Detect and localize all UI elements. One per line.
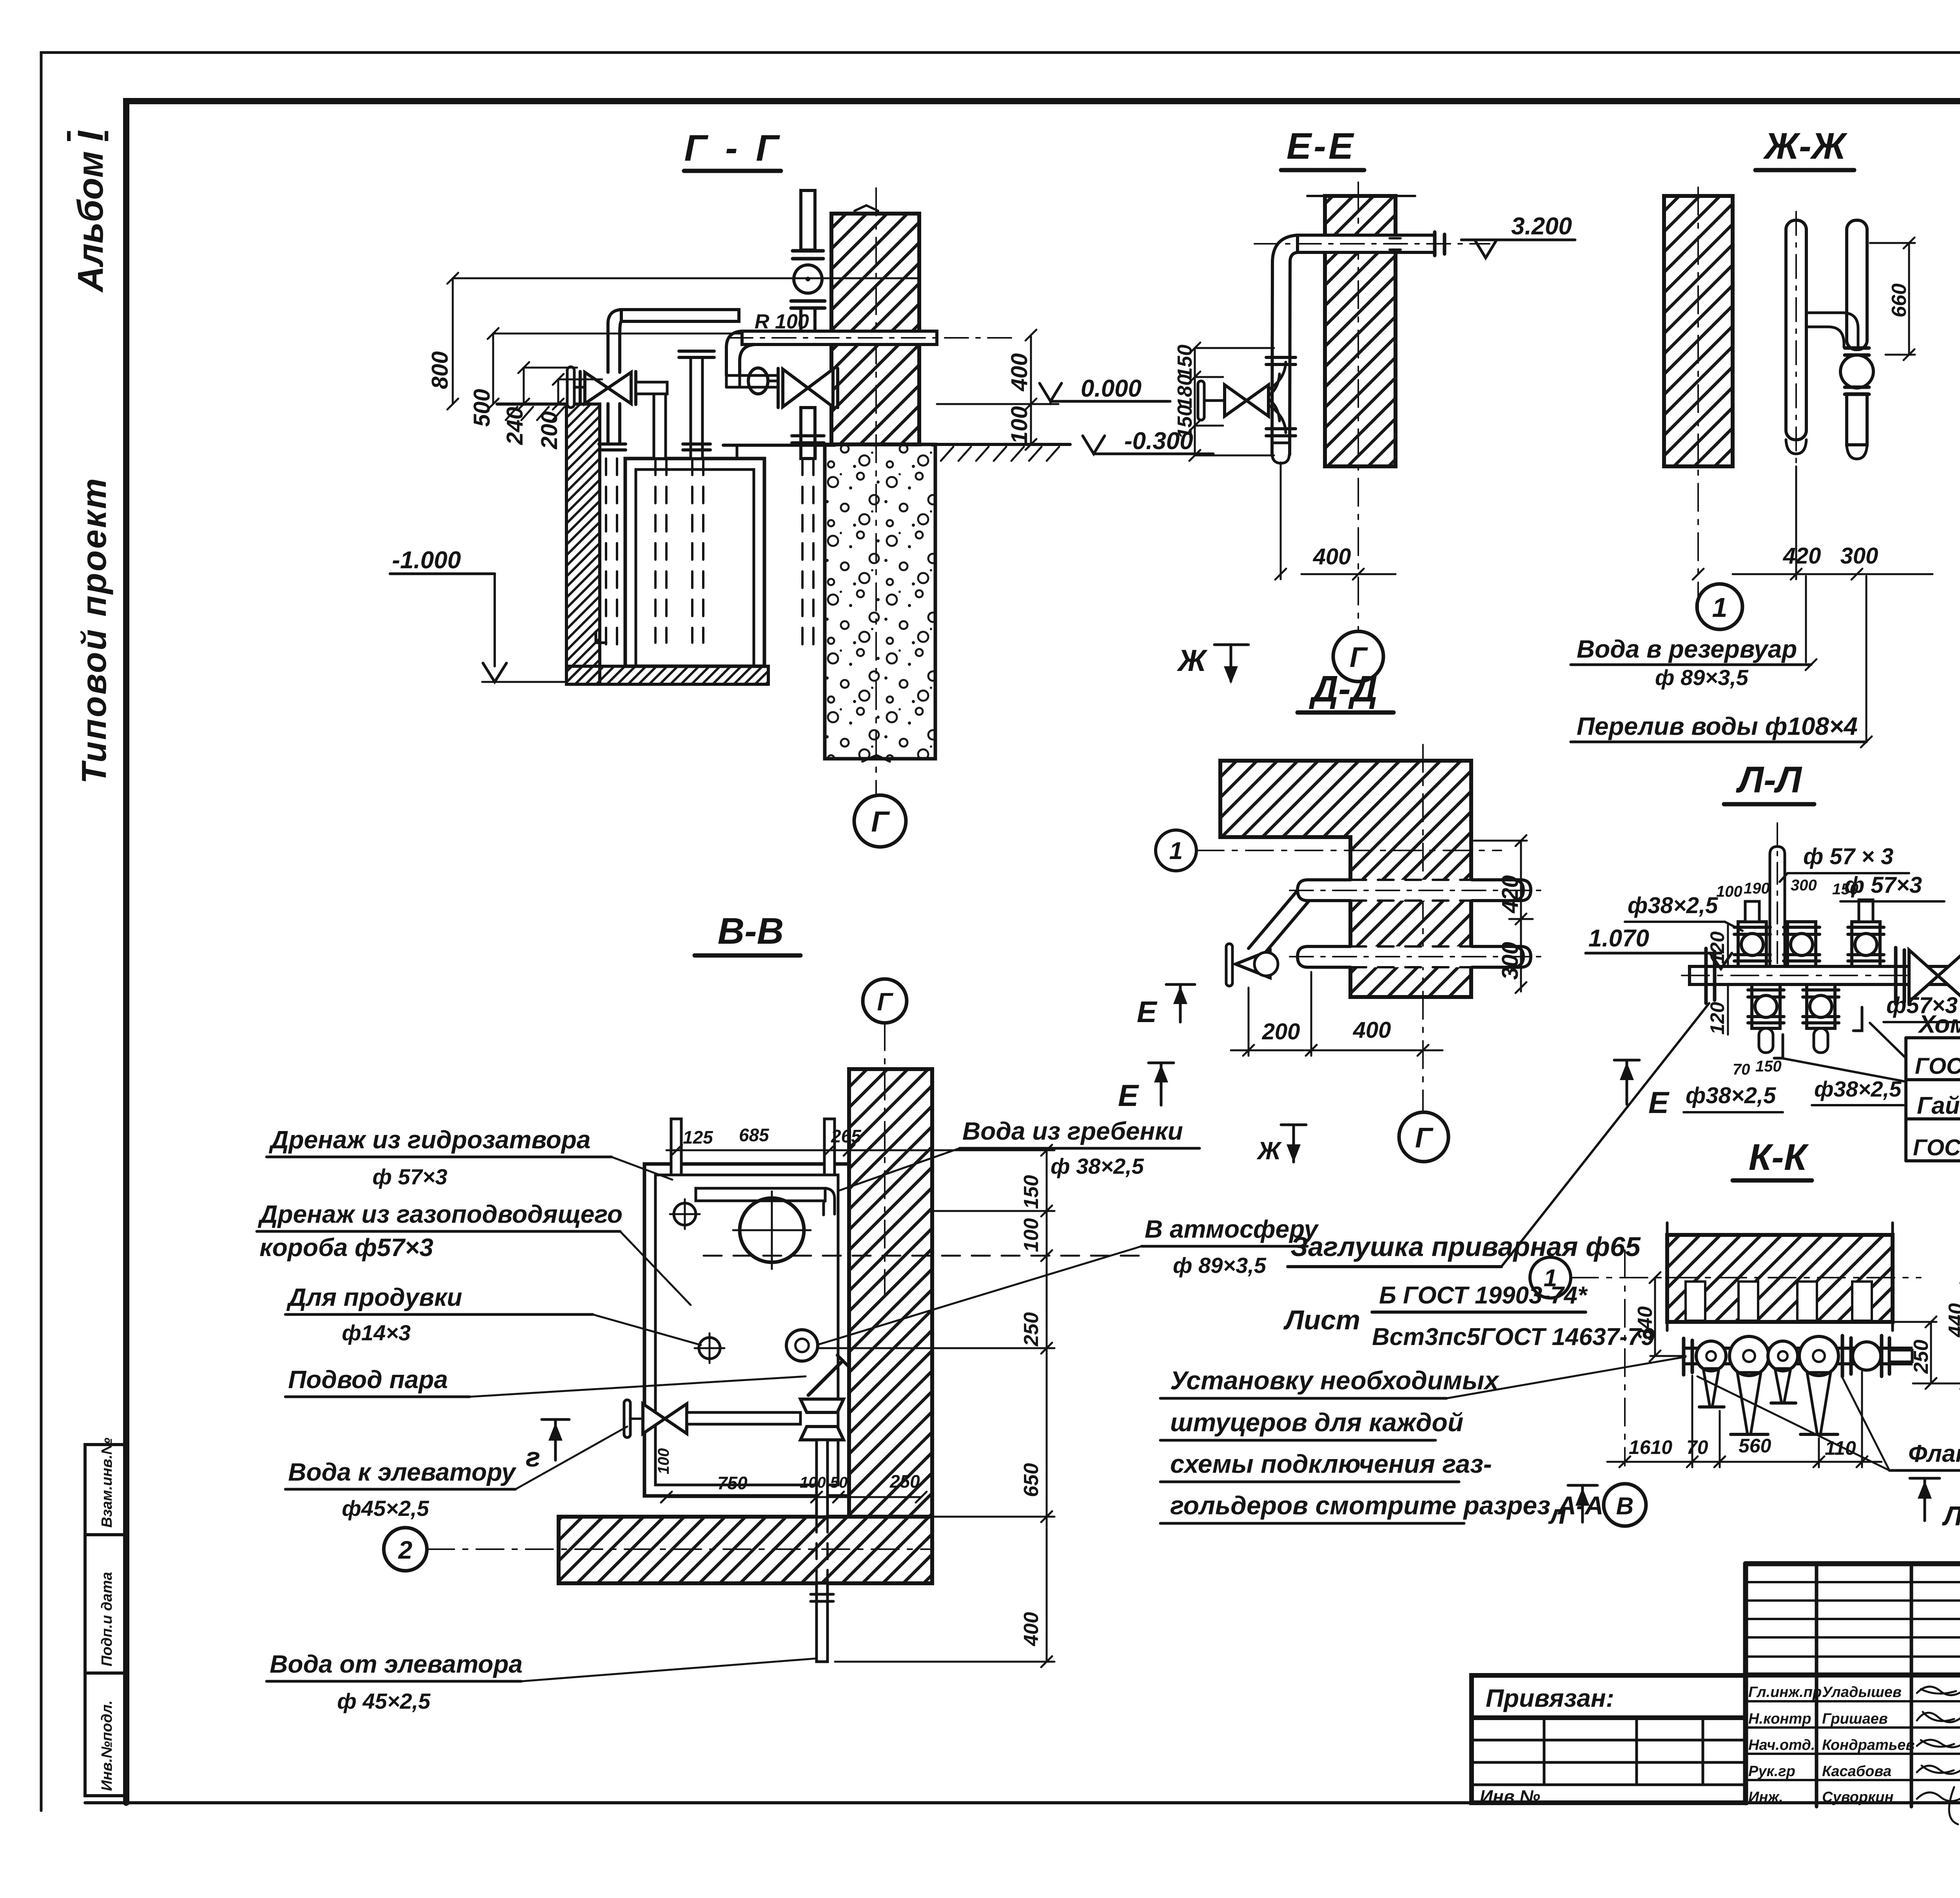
svg-text:гольдеров смотрите разрез А-А: гольдеров смотрите разрез А-А bbox=[1170, 1491, 1604, 1520]
svg-text:150: 150 bbox=[1832, 881, 1858, 898]
svg-text:R 100: R 100 bbox=[755, 310, 809, 333]
svg-text:1: 1 bbox=[1169, 838, 1183, 865]
svg-text:400: 400 bbox=[1313, 544, 1351, 569]
wall centerline bbox=[1697, 187, 1699, 616]
wall vertical hatched bbox=[849, 1069, 932, 1517]
svg-text:короба ф57×3: короба ф57×3 bbox=[260, 1233, 434, 1262]
gate valve right bbox=[1894, 948, 1898, 1004]
svg-text:240: 240 bbox=[502, 407, 528, 445]
dim 250 440 right bbox=[1894, 1272, 1960, 1389]
duct box outer bbox=[644, 1164, 849, 1496]
axis circle 1 bbox=[1156, 830, 1196, 871]
vertical pipe bottom cap bbox=[1272, 443, 1290, 463]
dim 500 bbox=[492, 334, 494, 404]
svg-text:Фланец 1-50-10 ГОСТ 12820-80: Фланец 1-50-10 ГОСТ 12820-80 bbox=[1908, 1440, 1960, 1467]
svg-text:ф 57 × 3: ф 57 × 3 bbox=[1803, 844, 1893, 869]
svg-text:150: 150 bbox=[1174, 405, 1196, 439]
svg-text:Вода в резервуар: Вода в резервуар bbox=[1577, 635, 1797, 663]
svg-text:150: 150 bbox=[1174, 344, 1196, 379]
slab hatched bbox=[1667, 1235, 1893, 1322]
lower pipe bbox=[1298, 946, 1531, 967]
svg-text:100: 100 bbox=[1020, 1218, 1043, 1252]
node circle Г bbox=[854, 795, 906, 847]
svg-text:Л-Л: Л-Л bbox=[1736, 759, 1802, 801]
big gas pipe circle bbox=[740, 1198, 804, 1262]
bottom valve handwheel bbox=[624, 1400, 630, 1438]
right ball valve bbox=[1841, 1336, 1844, 1376]
pit left wall bbox=[566, 404, 600, 684]
wall vertical centerline bbox=[1422, 745, 1424, 1112]
left flange bbox=[1682, 1338, 1686, 1375]
svg-text:В: В bbox=[1616, 1493, 1634, 1520]
svg-text:Г: Г bbox=[1415, 1122, 1434, 1154]
pit bottom slab bbox=[566, 666, 768, 684]
svg-text:265: 265 bbox=[831, 1126, 862, 1146]
svg-text:Л: Л bbox=[1942, 1501, 1960, 1531]
svg-text:560: 560 bbox=[1739, 1435, 1771, 1457]
wall bottom band hatched bbox=[559, 1517, 932, 1583]
svg-text:100 50: 100 50 bbox=[800, 1474, 848, 1491]
duct box inner bbox=[655, 1175, 838, 1485]
svg-text:420: 420 bbox=[1497, 875, 1523, 914]
valve unit B above bbox=[1784, 922, 1820, 966]
wall L-shape hatched bbox=[1220, 761, 1471, 997]
svg-text:440: 440 bbox=[1945, 1303, 1960, 1338]
svg-text:ф 57×3: ф 57×3 bbox=[372, 1164, 447, 1189]
svg-text:ГОСТ 24137-80 Ст.3: ГОСТ 24137-80 Ст.3 bbox=[1915, 1053, 1960, 1079]
bracket marks bbox=[1774, 1007, 1862, 1058]
svg-text:ф38×2,5: ф38×2,5 bbox=[1628, 893, 1718, 918]
svg-text:200: 200 bbox=[1262, 1019, 1300, 1044]
axis circle 1 bbox=[1530, 1257, 1571, 1298]
svg-text:ГОСТ 5915-70* Сталь10: ГОСТ 5915-70* Сталь10 bbox=[1913, 1135, 1960, 1160]
steam valve with diagonal handle bbox=[808, 1361, 843, 1395]
svg-text:Заглушка приварная ф65: Заглушка приварная ф65 bbox=[1290, 1231, 1641, 1262]
svg-text:Подп.и дата: Подп.и дата bbox=[99, 1572, 115, 1666]
svg-text:Хомут 60: Хомут 60 bbox=[1918, 1010, 1960, 1038]
svg-text:70: 70 bbox=[1686, 1436, 1708, 1458]
riser pipe tall bbox=[1770, 847, 1785, 966]
top extension line bbox=[1307, 195, 1415, 197]
horizontal pipe through wall bbox=[1298, 235, 1435, 252]
left valve handwheel edge-on bbox=[567, 367, 574, 408]
drop pipe at elbow bbox=[654, 394, 666, 459]
svg-text:Вст3пс5ГОСТ 14637-79: Вст3пс5ГОСТ 14637-79 bbox=[1372, 1323, 1655, 1351]
svg-text:Дренаж из газоподводящего: Дренаж из газоподводящего bbox=[258, 1200, 622, 1228]
view marker Л right bbox=[1910, 1477, 1940, 1480]
svg-text:Нач.отд.: Нач.отд. bbox=[1748, 1737, 1815, 1753]
svg-text:1: 1 bbox=[1544, 1265, 1557, 1292]
main pipe below valve bbox=[801, 408, 815, 459]
svg-text:100: 100 bbox=[1716, 883, 1742, 900]
svg-text:750: 750 bbox=[717, 1473, 748, 1493]
pipe end cap bbox=[1433, 232, 1437, 256]
svg-text:Н.контр: Н.контр bbox=[1748, 1711, 1811, 1727]
elbow to vertical pipe bbox=[1272, 235, 1298, 455]
svg-text:Уладышев: Уладышев bbox=[1822, 1684, 1902, 1700]
ground line right bbox=[935, 443, 1070, 446]
svg-text:660: 660 bbox=[1888, 283, 1911, 317]
privyazan block bbox=[1472, 1675, 1746, 1803]
bottom dim 400 bbox=[1275, 462, 1396, 580]
node circle Г bbox=[1333, 631, 1383, 682]
svg-text:ф 38×2,5: ф 38×2,5 bbox=[1051, 1154, 1144, 1178]
drain circle bbox=[674, 1203, 696, 1225]
svg-text:Вода к элеватору: Вода к элеватору bbox=[288, 1458, 517, 1486]
svg-text:300: 300 bbox=[1840, 543, 1878, 569]
svg-text:Е-Е: Е-Е bbox=[1287, 125, 1356, 167]
valve circles bbox=[1696, 1341, 1726, 1371]
svg-text:Альбом I: Альбом I bbox=[71, 130, 111, 293]
svg-text:100: 100 bbox=[1007, 406, 1032, 444]
left stamp column bbox=[85, 1438, 126, 1796]
leaders to khomut table bbox=[1782, 1023, 1906, 1082]
wall hatched bbox=[1664, 196, 1733, 466]
dim 240 bbox=[523, 368, 525, 404]
bottom dims bbox=[1607, 1372, 1882, 1467]
valve branch: handwheel edge-on bbox=[1198, 381, 1204, 420]
svg-text:Взам.инв.№: Взам.инв.№ bbox=[99, 1438, 115, 1528]
khomut table bbox=[1906, 1038, 1960, 1161]
bottom dims 420 300 bbox=[1693, 466, 1933, 580]
dim 100 right bbox=[1030, 404, 1032, 444]
atmosphere pipe circle bbox=[786, 1330, 818, 1361]
svg-text:Суворкин: Суворкин bbox=[1822, 1789, 1893, 1806]
node circle Г bbox=[1399, 1112, 1448, 1162]
wall hatched bbox=[831, 214, 919, 444]
valve handwheel edge-on bbox=[1226, 944, 1232, 986]
svg-text:300: 300 bbox=[1497, 942, 1523, 980]
svg-text:Е: Е bbox=[1118, 1078, 1139, 1113]
pipe slots in slab bbox=[1686, 1282, 1872, 1321]
svg-text:Ж: Ж bbox=[1176, 643, 1208, 678]
svg-text:Ж-Ж: Ж-Ж bbox=[1763, 125, 1848, 167]
valve on right pipe bbox=[1845, 346, 1869, 350]
dim 200 bbox=[557, 379, 559, 404]
valve unit C above bbox=[1848, 900, 1884, 966]
svg-text:190: 190 bbox=[1744, 880, 1770, 897]
handwheel bbox=[794, 265, 822, 293]
horizontal pipe R100 through wall bbox=[742, 331, 937, 344]
svg-text:Е: Е bbox=[1648, 1085, 1670, 1120]
pipe from left valve to elbow bbox=[636, 382, 667, 394]
hose curves to pipe bbox=[1269, 362, 1286, 396]
svg-text:420: 420 bbox=[1783, 543, 1821, 569]
svg-text:650: 650 bbox=[1020, 1463, 1043, 1497]
svg-text:150: 150 bbox=[1755, 1058, 1782, 1075]
upper horizontal pipe bbox=[621, 310, 739, 321]
svg-text:340: 340 bbox=[1634, 1306, 1657, 1340]
bottom dims 200 400 bbox=[1231, 972, 1443, 1056]
middle pipe with tee bbox=[691, 357, 702, 459]
svg-text:200: 200 bbox=[537, 411, 562, 450]
view marker Ж bottom bbox=[1281, 1124, 1306, 1126]
svg-text:ф38×2,5: ф38×2,5 bbox=[1686, 1083, 1776, 1108]
node circle 2 bbox=[384, 1528, 427, 1571]
svg-text:120: 120 bbox=[1706, 1002, 1728, 1035]
svg-text:0.000: 0.000 bbox=[1081, 375, 1142, 402]
wall hatched bbox=[1325, 196, 1396, 466]
svg-text:Подвод пара: Подвод пара bbox=[288, 1365, 448, 1394]
valve unit A above bbox=[1734, 901, 1770, 966]
svg-text:3.200: 3.200 bbox=[1511, 213, 1572, 240]
dim 660 bbox=[1870, 237, 1915, 360]
svg-text:В-В: В-В bbox=[718, 910, 784, 952]
svg-text:800: 800 bbox=[427, 351, 453, 389]
svg-text:250: 250 bbox=[889, 1471, 920, 1492]
svg-text:ф 89×3,5: ф 89×3,5 bbox=[1173, 1253, 1267, 1278]
down pipe from valve bbox=[817, 1440, 828, 1517]
svg-text:1610: 1610 bbox=[1629, 1436, 1672, 1458]
tank inner bbox=[636, 470, 754, 666]
svg-text:ф38×2,5: ф38×2,5 bbox=[1814, 1077, 1902, 1101]
wall break marks bbox=[855, 205, 878, 211]
flange pair bbox=[793, 249, 823, 253]
svg-text:Е: Е bbox=[1137, 995, 1158, 1029]
svg-text:400: 400 bbox=[1020, 1612, 1043, 1646]
svg-text:250: 250 bbox=[1910, 1340, 1933, 1374]
svg-text:180: 180 bbox=[1174, 374, 1196, 408]
svg-text:Инж.: Инж. bbox=[1748, 1789, 1783, 1806]
valve bowtie bbox=[1225, 385, 1269, 416]
svg-text:Типовой проект: Типовой проект bbox=[74, 477, 113, 784]
svg-text:500: 500 bbox=[469, 389, 495, 427]
ground line left bbox=[497, 402, 566, 406]
node circle 1 bbox=[1697, 584, 1742, 629]
personnel rows bbox=[1748, 1684, 1915, 1806]
foundation concrete bbox=[825, 444, 935, 759]
svg-text:685: 685 bbox=[739, 1125, 769, 1145]
right dim chain bbox=[819, 1145, 1054, 1667]
svg-text:Установку необходимых: Установку необходимых bbox=[1170, 1366, 1499, 1395]
svg-text:120: 120 bbox=[1706, 931, 1728, 964]
svg-text:400: 400 bbox=[1007, 353, 1032, 392]
cones below bbox=[1703, 1369, 1719, 1407]
dim 800 bbox=[427, 273, 1058, 450]
bottom valve bowtie bbox=[643, 1404, 687, 1434]
svg-text:Инв.№подл.: Инв.№подл. bbox=[99, 1700, 115, 1791]
svg-text:В атмосферу: В атмосферу bbox=[1145, 1215, 1319, 1243]
svg-text:100: 100 bbox=[655, 1448, 672, 1474]
TITLE BLOCK bbox=[1472, 1564, 1960, 1824]
dim 120 x2 bbox=[1706, 925, 1728, 1035]
diagonal pipe to valve bbox=[1249, 890, 1309, 952]
dashed pipes in tank bbox=[606, 459, 813, 647]
svg-text:ф 45×2,5: ф 45×2,5 bbox=[337, 1689, 431, 1713]
svg-text:Касабова: Касабова bbox=[1822, 1763, 1891, 1780]
dims above box bbox=[666, 1125, 890, 1156]
svg-text:Лист: Лист bbox=[1283, 1305, 1360, 1335]
svg-text:ф45×2,5: ф45×2,5 bbox=[342, 1496, 429, 1521]
svg-text:Д-Д: Д-Д bbox=[1309, 668, 1378, 710]
svg-text:Привязан:: Привязан: bbox=[1486, 1684, 1614, 1712]
svg-text:1.070: 1.070 bbox=[1588, 925, 1649, 952]
svg-text:-1.000: -1.000 bbox=[392, 547, 461, 574]
svg-text:Г - Г: Г - Г bbox=[684, 127, 782, 169]
right valve bowtie bbox=[777, 368, 780, 408]
svg-text:300: 300 bbox=[1791, 877, 1817, 894]
svg-text:Г: Г bbox=[871, 805, 890, 838]
wall centerline bbox=[875, 188, 877, 795]
dim 400 right bbox=[1030, 335, 1032, 404]
svg-text:2: 2 bbox=[398, 1536, 412, 1564]
svg-text:К-К: К-К bbox=[1749, 1137, 1809, 1178]
support rail over tank bbox=[723, 444, 835, 447]
svg-text:штуцеров для каждой: штуцеров для каждой bbox=[1170, 1408, 1463, 1437]
connector elbow bbox=[1806, 313, 1858, 347]
svg-text:Г: Г bbox=[877, 988, 893, 1016]
svg-text:Кондратьев: Кондратьев bbox=[1822, 1737, 1915, 1753]
svg-text:Для продувки: Для продувки bbox=[286, 1283, 462, 1311]
svg-text:Рук.гр: Рук.гр bbox=[1748, 1763, 1795, 1780]
valve flanges bbox=[791, 299, 825, 303]
dims 420 300 right bbox=[1474, 835, 1533, 993]
node circle Г top bbox=[863, 979, 907, 1023]
dims 150/180/150 bbox=[1174, 343, 1274, 461]
svg-text:Инв №: Инв № bbox=[1480, 1786, 1540, 1807]
dashed atmosphere line bbox=[704, 1255, 1149, 1257]
left valve bowtie bbox=[579, 372, 582, 404]
svg-text:Ж: Ж bbox=[1256, 1137, 1282, 1165]
svg-text:Перелив воды ф108×4: Перелив воды ф108×4 bbox=[1577, 712, 1858, 740]
flange bars above tank rim bbox=[599, 442, 626, 446]
svg-text:125: 125 bbox=[683, 1127, 713, 1148]
svg-text:70: 70 bbox=[1733, 1061, 1750, 1078]
dim 340 bbox=[1634, 1272, 1686, 1361]
svg-text:400: 400 bbox=[1353, 1017, 1391, 1043]
right pipe bbox=[1847, 220, 1867, 350]
upper pipe bbox=[1298, 880, 1531, 901]
svg-text:1: 1 bbox=[1712, 592, 1728, 623]
wall centerline bbox=[1357, 182, 1359, 630]
svg-text:250: 250 bbox=[1020, 1312, 1043, 1347]
svg-text:г: г bbox=[526, 1442, 540, 1472]
valve unit below D bbox=[1748, 984, 1784, 1053]
flange bars on pipe bbox=[1266, 356, 1296, 359]
svg-text:Дренаж из гидрозатвора: Дренаж из гидрозатвора bbox=[269, 1126, 591, 1154]
vertical axis line bbox=[1624, 1250, 1626, 1466]
svg-text:Гришаев: Гришаев bbox=[1822, 1711, 1888, 1727]
right valve handwheel oval bbox=[748, 368, 768, 394]
left flange bbox=[1704, 948, 1708, 1003]
valve unit below E bbox=[1803, 984, 1839, 1053]
main vertical pipe top bbox=[801, 190, 815, 250]
signatures bbox=[1917, 1687, 1960, 1824]
bottom dims in box bbox=[655, 1448, 927, 1503]
svg-text:ф14×3: ф14×3 bbox=[342, 1320, 411, 1345]
svg-text:150: 150 bbox=[1020, 1175, 1043, 1209]
small circle Для продувки bbox=[699, 1338, 720, 1359]
tank outer bbox=[625, 459, 764, 666]
svg-text:Гайка М10: Гайка М10 bbox=[1917, 1092, 1960, 1119]
node circle В bbox=[1604, 1484, 1646, 1526]
horizontal pipe in box bbox=[696, 1188, 825, 1201]
manifold pipe bbox=[1684, 1348, 1911, 1364]
narrow rows table bbox=[1746, 1582, 1960, 1780]
svg-text:Вода из гребенки: Вода из гребенки bbox=[962, 1117, 1183, 1145]
pipe to right bbox=[687, 1412, 800, 1424]
svg-text:Гл.инж.пр: Гл.инж.пр bbox=[1748, 1684, 1822, 1700]
stub pipes above box bbox=[671, 1119, 681, 1175]
left pipe bbox=[1786, 220, 1806, 440]
small dims row bbox=[1716, 877, 1858, 900]
svg-text:схемы подключения газ-: схемы подключения газ- bbox=[1170, 1449, 1492, 1478]
valve cone bbox=[1236, 950, 1270, 978]
svg-text:ф 89×3,5: ф 89×3,5 bbox=[1655, 665, 1749, 690]
svg-text:Вода от элеватора: Вода от элеватора bbox=[270, 1650, 523, 1678]
main horizontal pipe bbox=[1690, 966, 1960, 984]
